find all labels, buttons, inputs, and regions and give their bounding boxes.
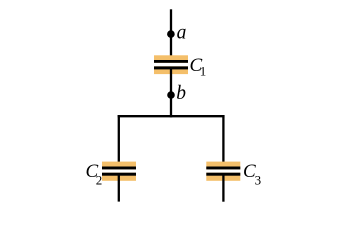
wire: horizontal bus [118, 115, 225, 117]
node a [167, 30, 175, 38]
svg-text:3: 3 [255, 172, 262, 187]
svg-text:1: 1 [200, 63, 207, 78]
capacitor C3 [206, 162, 240, 181]
capacitor C2 [102, 162, 136, 181]
wire: C1 bottom plate through node b to junction bus [170, 67, 172, 117]
svg-text:b: b [176, 83, 186, 104]
label C2 [86, 161, 103, 188]
wire: right branch down to C3 [222, 115, 224, 169]
label C3 [243, 161, 261, 187]
svg-text:2: 2 [96, 173, 103, 188]
svg-text:a: a [177, 22, 187, 43]
wire: stub below C3 [222, 173, 224, 202]
wire: stub below C2 [118, 173, 120, 202]
capacitor C1 [154, 55, 188, 74]
wire: top lead from top edge down to C1 top plate [170, 9, 172, 62]
label C1 [190, 55, 207, 78]
node b [167, 91, 175, 99]
wire: left branch down to C2 [118, 115, 120, 169]
